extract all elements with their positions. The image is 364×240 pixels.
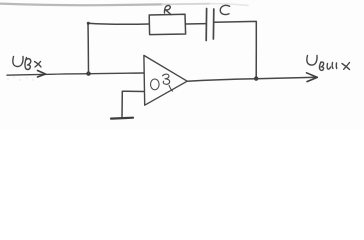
label ОУ inside op-amp — [151, 74, 173, 91]
wire output — [187, 77, 317, 81]
wire input — [7, 73, 144, 75]
label R — [164, 5, 171, 14]
output arrowhead — [307, 73, 318, 82]
ground — [111, 117, 133, 120]
wire feedback top left — [88, 23, 149, 24]
junction node B (output net) — [254, 76, 258, 80]
wire R to C — [186, 23, 207, 25]
label C — [220, 5, 229, 14]
input arrowhead — [38, 71, 46, 78]
node Uвых (output label) — [307, 56, 350, 71]
wire feedback vertical left — [87, 23, 90, 74]
wire noninverting input to ground — [122, 91, 144, 117]
resistor R — [149, 14, 185, 34]
junction node A (inverting input net) — [86, 71, 90, 75]
capacitor C — [206, 9, 214, 41]
node Uвх (input label) — [13, 57, 41, 70]
op-amp U1 — [144, 55, 187, 105]
wire C to right corner and down — [214, 21, 257, 78]
